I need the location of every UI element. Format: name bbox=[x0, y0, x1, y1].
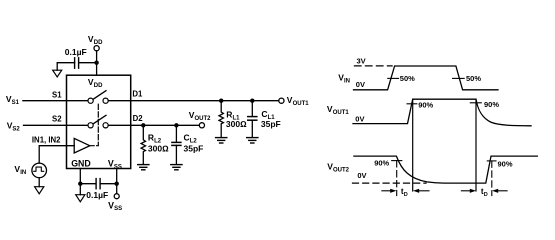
VIN pulse source bbox=[32, 163, 47, 178]
VOUT1 waveform bbox=[353, 99, 531, 126]
label VDD pin (inside box) bbox=[88, 77, 103, 89]
tD arrow right (second) bbox=[492, 189, 507, 193]
VSS supply terminal bbox=[114, 194, 119, 199]
junction node RL2 bbox=[141, 123, 145, 127]
label 90% (VOUT1 fall) bbox=[484, 100, 499, 109]
wire S2 inside box bbox=[67, 124, 88, 126]
svg-text:S1: S1 bbox=[52, 90, 62, 99]
VOUT2 waveform bbox=[354, 156, 537, 183]
svg-text:OUT2: OUT2 bbox=[195, 116, 212, 122]
capacitor 0.1uF (top bypass) bbox=[75, 58, 79, 68]
svg-text:D: D bbox=[484, 192, 488, 198]
dashed marker (VOUT2 90% fall) bbox=[396, 161, 398, 196]
label 35pF (CL2) bbox=[184, 144, 204, 154]
ground RL1 bbox=[216, 138, 227, 143]
svg-text:300Ω: 300Ω bbox=[226, 119, 247, 129]
label VS1 bbox=[6, 94, 20, 106]
svg-text:0V: 0V bbox=[357, 171, 366, 180]
label 300ohm (RL2) bbox=[148, 144, 169, 154]
wire GND pin down bbox=[79, 169, 81, 184]
svg-text:OUT2: OUT2 bbox=[333, 168, 350, 174]
marker line 1 (VOUT1 rise) bbox=[412, 99, 414, 191]
resistor RL1 bbox=[219, 101, 223, 137]
dashed 0V level line (VOUT2) bbox=[353, 182, 427, 184]
wire GND to bottom bypass cap bbox=[80, 183, 95, 185]
wire D1 to VOUT1 bbox=[131, 100, 279, 102]
90% tick (VOUT2 rise) bbox=[487, 160, 496, 162]
svg-text:SS: SS bbox=[114, 164, 122, 170]
label 35pF (CL1) bbox=[261, 119, 281, 129]
label 0V (VOUT2) bbox=[357, 171, 366, 180]
svg-text:300Ω: 300Ω bbox=[148, 144, 169, 154]
label 90% (VOUT1 rise) bbox=[418, 101, 433, 110]
svg-text:DD: DD bbox=[94, 40, 103, 46]
label GND pin bbox=[71, 159, 91, 169]
label D1 bbox=[132, 89, 143, 98]
label D2 bbox=[133, 114, 144, 123]
svg-text:50%: 50% bbox=[466, 74, 481, 83]
buffer amplifier (inside box) bbox=[74, 138, 90, 153]
svg-text:IN: IN bbox=[20, 170, 26, 176]
wire IN to buffer bbox=[39, 146, 74, 163]
resistor RL2 bbox=[141, 125, 145, 164]
capacitor 0.1uF (bottom bypass) bbox=[96, 179, 100, 189]
svg-text:OUT1: OUT1 bbox=[333, 110, 350, 116]
wire VS1 to S1 pin bbox=[23, 100, 67, 102]
50% tick (rising) bbox=[388, 77, 399, 79]
wire GND to ground triangle bbox=[79, 184, 81, 195]
junction node RL1 bbox=[219, 99, 223, 103]
junction dot VDD/bypass bbox=[94, 61, 98, 65]
VIN waveform bbox=[354, 66, 499, 90]
junction node CL1 bbox=[250, 99, 254, 103]
tD arrow right (first) bbox=[413, 189, 429, 193]
wire D2 to VOUT2 bbox=[131, 124, 200, 126]
label 50% (rising) bbox=[400, 74, 415, 83]
svg-text:IN: IN bbox=[344, 79, 350, 85]
dashed marker (VOUT2 90% rise) bbox=[491, 161, 493, 196]
label CL1 bbox=[261, 109, 275, 121]
ground RL2 bbox=[138, 165, 149, 170]
label 50% (falling) bbox=[466, 74, 481, 83]
wire VSS to terminal bbox=[116, 184, 118, 194]
wire cap to VSS pin wire bbox=[100, 183, 117, 185]
label S2 bbox=[52, 114, 62, 123]
svg-text:35pF: 35pF bbox=[184, 144, 204, 154]
svg-text:90%: 90% bbox=[484, 100, 499, 109]
svg-text:50%: 50% bbox=[400, 74, 415, 83]
label VS2 bbox=[7, 121, 21, 133]
wire cap to ground bbox=[57, 63, 74, 70]
label 0.1uF (top) bbox=[65, 47, 87, 57]
wire S1 inside box bbox=[67, 100, 88, 102]
label 0.1uF (bottom) bbox=[86, 190, 108, 200]
svg-text:0.1µF: 0.1µF bbox=[65, 47, 87, 57]
switch S2 blade bbox=[93, 115, 106, 124]
label VIN (waveform) bbox=[338, 73, 350, 85]
switch S1 pole contact bbox=[88, 98, 93, 103]
switch S2 pole contact bbox=[88, 123, 93, 128]
label VIN bbox=[14, 164, 26, 176]
90% tick (VOUT1 rise) bbox=[407, 103, 417, 105]
label 300ohm (RL1) bbox=[226, 119, 247, 129]
wire D2 inside box bbox=[108, 124, 130, 126]
dashed control line (switch linkage) bbox=[90, 104, 98, 146]
label VSS (bottom) bbox=[108, 200, 122, 212]
tD arrow left (second) bbox=[461, 189, 476, 193]
label tD (second) bbox=[481, 187, 488, 198]
ground CL1 bbox=[247, 138, 258, 143]
wire junction to bypass cap bbox=[79, 62, 97, 64]
ground CL2 bbox=[171, 165, 182, 170]
svg-text:0V: 0V bbox=[356, 80, 365, 89]
label VOUT1 bbox=[287, 95, 309, 107]
switch S1 blade bbox=[93, 91, 106, 100]
capacitor CL1 bbox=[248, 101, 257, 137]
svg-text:90%: 90% bbox=[498, 159, 513, 168]
svg-text:S2: S2 bbox=[52, 114, 62, 123]
ground triangle (VIN) bbox=[35, 187, 44, 194]
junction node VSS bbox=[115, 182, 119, 186]
svg-text:0V: 0V bbox=[355, 115, 364, 124]
label S1 bbox=[52, 90, 62, 99]
svg-text:S2: S2 bbox=[12, 127, 20, 133]
tD arrow left (first) bbox=[382, 189, 397, 193]
junction node CL2 bbox=[174, 123, 178, 127]
VDD supply terminal bbox=[94, 46, 99, 51]
svg-text:S1: S1 bbox=[12, 100, 20, 106]
label VOUT2 (waveform) bbox=[327, 161, 349, 173]
VOUT1 terminal bbox=[279, 98, 284, 103]
junction node GND bbox=[78, 182, 82, 186]
marker line 2 (VOUT1 fall) bbox=[475, 99, 477, 191]
svg-text:IN1, IN2: IN1, IN2 bbox=[32, 136, 61, 145]
ground triangle (top bypass) bbox=[53, 70, 62, 77]
label CL2 bbox=[184, 133, 198, 145]
label 90% (VOUT2 fall) bbox=[374, 158, 389, 167]
label RL1 bbox=[226, 109, 240, 121]
label 90% (VOUT2 rise) bbox=[498, 159, 513, 168]
90% tick (VOUT1 fall) bbox=[470, 102, 481, 104]
label IN1, IN2 bbox=[32, 136, 61, 145]
label 0V (VIN) bbox=[356, 80, 365, 89]
90% tick (VOUT2 fall) bbox=[392, 160, 402, 162]
label 3V bbox=[357, 56, 366, 65]
label VDD (top) bbox=[88, 34, 103, 46]
label tD (first) bbox=[401, 187, 408, 198]
VOUT2 terminal bbox=[199, 123, 204, 128]
svg-text:SS: SS bbox=[114, 206, 122, 212]
wire VIN source to ground bbox=[38, 178, 40, 187]
label VOUT2 bbox=[189, 110, 211, 122]
label RL2 bbox=[148, 133, 162, 145]
capacitor CL2 bbox=[172, 125, 181, 164]
wire VSS pin down bbox=[116, 169, 118, 184]
IC box bbox=[67, 75, 131, 168]
svg-text:90%: 90% bbox=[374, 158, 389, 167]
label VSS pin (inside box) bbox=[108, 159, 122, 171]
dashed 3V level line bbox=[354, 65, 392, 67]
svg-text:D: D bbox=[404, 192, 408, 198]
switch S1 throw contact bbox=[103, 98, 108, 103]
svg-text:35pF: 35pF bbox=[261, 119, 281, 129]
svg-text:0.1µF: 0.1µF bbox=[86, 190, 108, 200]
svg-text:GND: GND bbox=[71, 159, 91, 169]
switch S2 throw contact bbox=[103, 123, 108, 128]
wire VS2 to S2 pin bbox=[24, 124, 67, 126]
ground triangle (GND pin) bbox=[76, 195, 85, 202]
svg-text:OUT1: OUT1 bbox=[293, 101, 310, 107]
svg-text:D1: D1 bbox=[132, 89, 143, 98]
svg-text:90%: 90% bbox=[418, 101, 433, 110]
50% tick (falling) bbox=[453, 77, 465, 79]
pulse symbol bbox=[34, 167, 44, 171]
wire VDD vertical bbox=[96, 51, 98, 75]
svg-text:DD: DD bbox=[94, 83, 103, 89]
svg-text:D2: D2 bbox=[133, 114, 144, 123]
label VOUT1 (waveform) bbox=[327, 104, 349, 116]
label 0V (VOUT1) bbox=[355, 115, 364, 124]
svg-text:3V: 3V bbox=[357, 56, 366, 65]
wire D1 inside box bbox=[108, 100, 130, 102]
